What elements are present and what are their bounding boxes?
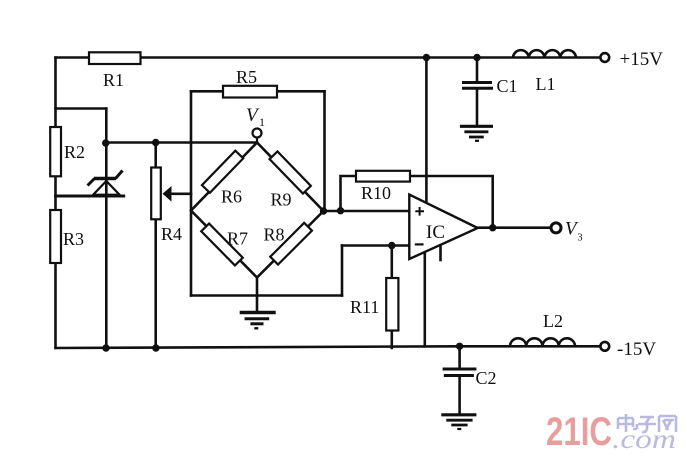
wire feedback to output: [410, 176, 493, 228]
resistor R2: [50, 127, 61, 176]
capacitor C2: [443, 369, 477, 376]
wire top +15V rail: [56, 56, 601, 59]
wire inverting input to bottom frame: [341, 246, 344, 296]
wire left vertical branch: [54, 58, 57, 349]
wire bridge bottom frame: [191, 294, 342, 297]
wire C1 top lead: [476, 58, 479, 82]
wire bridge left frame: [190, 91, 193, 295]
wire zener anode bar: [56, 195, 124, 198]
terminal output Vo: [551, 223, 561, 233]
ground C1: [460, 126, 493, 141]
node dot C1 rail: [473, 54, 480, 61]
ground C2: [441, 415, 476, 429]
node dot output: [489, 224, 496, 231]
wire bridge diamond edges: [191, 143, 324, 278]
node dot C2 rail: [456, 343, 463, 350]
wire zener cathode drop: [105, 109, 108, 197]
svg-text:IC: IC: [426, 222, 445, 243]
svg-text:1: 1: [259, 115, 265, 129]
wire C2 top lead: [458, 346, 461, 368]
wire R4 wiper arm: [170, 193, 191, 196]
wire R4 vertical branch: [154, 143, 157, 349]
svg-text:+15V: +15V: [620, 49, 664, 70]
node dot zener bottom rail: [102, 344, 109, 351]
svg-text:R9: R9: [271, 190, 292, 210]
svg-text:L2: L2: [543, 311, 563, 331]
watermark 21IC: [546, 410, 612, 454]
op-amp U1 IC: [409, 195, 477, 260]
node dot R4 bottom rail: [152, 344, 159, 351]
wire bridge excitation horizontal: [106, 141, 257, 144]
svg-text:R2: R2: [64, 142, 85, 162]
svg-text:R10: R10: [361, 183, 391, 203]
node dot R11 tap: [388, 242, 395, 249]
wire bridge ground stem: [256, 278, 259, 312]
wire op-amp V- pin stub: [439, 245, 442, 260]
svg-text:3: 3: [578, 233, 583, 244]
wire C1 bottom lead: [476, 89, 479, 126]
resistor R11: [386, 278, 398, 331]
svg-text:21IC: 21IC: [546, 410, 612, 454]
svg-text:V: V: [246, 105, 260, 126]
node dot bridge right vertex: [320, 207, 327, 214]
wire op-amp V- supply: [423, 252, 426, 347]
watermark .com: [612, 424, 676, 454]
wire C2 bottom lead: [458, 377, 461, 414]
wire op-amp output: [478, 226, 551, 229]
inductor L2: [510, 338, 575, 346]
resistor R1: [89, 52, 141, 64]
node dot R4 top: [152, 139, 159, 146]
svg-text:R7: R7: [227, 229, 248, 249]
node dot V+ rail: [423, 54, 430, 61]
wire R2 top tap: [56, 107, 107, 110]
node V1 circle: [253, 129, 262, 143]
resistor R6: [202, 151, 243, 193]
resistor R9: [270, 151, 311, 193]
svg-text:R4: R4: [161, 224, 182, 244]
svg-text:R11: R11: [350, 297, 379, 317]
resistor R5: [223, 86, 277, 98]
wire R11 branch: [390, 246, 393, 349]
ground bridge: [240, 313, 276, 329]
svg-text:R3: R3: [63, 229, 84, 249]
wire R10 left leg: [341, 176, 357, 211]
terminal +15V: [600, 53, 609, 62]
wire bridge right frame: [323, 91, 326, 211]
wire bridge top frame R5: [191, 90, 325, 93]
resistor R7: [201, 224, 243, 266]
svg-text:R5: R5: [236, 67, 257, 87]
op-amp minus sign: [415, 243, 424, 245]
potentiometer R4: [151, 168, 171, 220]
svg-text:.com: .com: [612, 424, 676, 454]
node dot zener top: [102, 139, 109, 146]
terminal -15V: [600, 342, 609, 351]
wire op-amp V+ supply: [425, 58, 428, 203]
wire op-amp noninverting input: [324, 210, 410, 213]
resistor R3: [50, 210, 61, 263]
node dot R10 tap: [337, 207, 344, 214]
wire op-amp inverting input: [342, 244, 409, 247]
svg-text:L1: L1: [536, 74, 556, 94]
resistor R10: [356, 171, 410, 182]
op-amp plus sign: [415, 207, 424, 216]
svg-text:R6: R6: [221, 187, 242, 207]
zener diode VD: [88, 171, 123, 195]
resistor R8: [270, 223, 312, 265]
svg-text:-15V: -15V: [617, 339, 656, 360]
svg-text:C1: C1: [497, 76, 518, 96]
watermark chinese 电子网: [618, 414, 676, 432]
inductor L1: [513, 50, 576, 57]
svg-text:C2: C2: [476, 368, 497, 388]
wire bottom -15V rail: [56, 346, 601, 348]
capacitor C1: [462, 83, 493, 89]
wire zener anode to bottom rail: [105, 196, 108, 348]
svg-text:R1: R1: [103, 70, 124, 90]
svg-text:R8: R8: [264, 225, 285, 245]
